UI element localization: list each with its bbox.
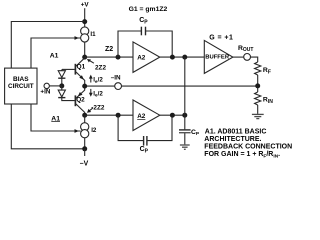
wire Z2 node to A2 input — [85, 56, 133, 58]
wire BIAS to I1 control — [31, 36, 81, 68]
node -V junction — [82, 146, 87, 151]
svg-text:+V: +V — [81, 2, 90, 9]
resistor RIN — [255, 92, 274, 105]
wire Q2 collector to lower A2 — [85, 114, 133, 116]
node +IN junction — [59, 83, 64, 88]
svg-text:I2: I2 — [91, 127, 97, 134]
node +V — [81, 2, 90, 27]
svg-text:Q2: Q2 — [76, 96, 85, 103]
wire A2 top output — [160, 56, 205, 58]
resistor RF — [255, 62, 271, 76]
svg-text:A2: A2 — [137, 54, 146, 61]
svg-text:Ie/2: Ie/2 — [93, 77, 103, 84]
ground below CP — [180, 145, 190, 149]
wire I2 to -V rail — [84, 138, 86, 149]
svg-text:2Z2: 2Z2 — [95, 64, 106, 71]
node cross junction bottom — [182, 113, 187, 118]
current Ie/2 down — [89, 89, 103, 98]
current Ie/2 up — [89, 75, 103, 84]
svg-text:A1. AD8011 BASIC: A1. AD8011 BASIC — [205, 129, 267, 136]
wire buffer output — [233, 56, 244, 58]
transistor Q2 — [75, 86, 85, 115]
wire +IN terminal — [50, 85, 62, 87]
wire RIN to ground — [257, 105, 259, 114]
node Z2 junction — [82, 55, 87, 60]
capacitor CP top feedback — [118, 17, 172, 57]
svg-text:Z2: Z2 — [105, 46, 113, 53]
svg-text:A2: A2 — [137, 113, 146, 120]
svg-text:I1: I1 — [90, 31, 96, 38]
diode D1 — [58, 69, 65, 84]
svg-text:-2Z2: -2Z2 — [91, 104, 105, 111]
op-amp A2 bottom — [133, 100, 160, 131]
wire node to I2 — [84, 115, 86, 123]
wire BIAS to -V rail — [11, 104, 84, 149]
svg-text:ARCHITECTURE.: ARCHITECTURE. — [204, 136, 261, 143]
wire BIAS to I2 control — [31, 104, 81, 133]
node A2 bottom output junction — [170, 113, 175, 118]
caption text — [204, 129, 292, 160]
terminal ROUT — [238, 45, 253, 61]
node -2Z2 annotation — [87, 104, 105, 112]
wire cross connect — [184, 57, 186, 129]
node cross junction top — [182, 55, 187, 60]
node 2Z2 annotation — [87, 59, 107, 71]
ground below RIN — [252, 114, 264, 118]
node -V — [80, 149, 89, 168]
svg-text:G1 = gm1Z2: G1 = gm1Z2 — [129, 6, 168, 13]
node A2 top output junction — [170, 55, 175, 60]
svg-text:CIRCUIT: CIRCUIT — [8, 83, 34, 90]
bias circuit U1 — [5, 68, 37, 104]
node A2 bottom input junction — [116, 113, 121, 118]
capacitor CP load — [179, 129, 200, 145]
current source I2 — [81, 123, 97, 138]
svg-text:A1: A1 — [51, 115, 60, 122]
wire I1 to node Z2 — [84, 42, 86, 57]
capacitor CP bottom feedback — [118, 115, 172, 154]
op-amp A2 top — [133, 42, 160, 73]
wire A2 bottom output — [160, 114, 185, 116]
node A2 top input junction — [116, 55, 121, 60]
svg-text:Q1: Q1 — [77, 63, 86, 70]
svg-text:–V: –V — [80, 161, 89, 168]
buffer U2 — [204, 34, 233, 73]
svg-text:FEEDBACK CONNECTION: FEEDBACK CONNECTION — [204, 144, 292, 151]
svg-text:+IN: +IN — [40, 88, 50, 95]
current source I1 — [81, 27, 97, 42]
svg-text:G = +1: G = +1 — [209, 34, 233, 41]
wire -IN to feedback junction — [122, 85, 258, 87]
wire BIAS to +V rail — [11, 22, 84, 69]
svg-text:BUFFER: BUFFER — [205, 54, 230, 60]
terminal +IN — [40, 83, 50, 95]
transistor Q1 — [62, 58, 86, 86]
wire to RF — [251, 57, 258, 62]
node emitter junction — [82, 84, 87, 89]
node Q2 collector junction — [82, 113, 87, 118]
diode D2 — [58, 86, 74, 101]
terminal -IN — [111, 74, 122, 89]
svg-text:A1: A1 — [50, 52, 59, 59]
svg-text:–IN: –IN — [111, 74, 121, 81]
node feedback junction — [255, 83, 260, 88]
wire -IN rail — [85, 85, 115, 87]
wire RF to junction — [257, 75, 259, 92]
svg-text:Ie/2: Ie/2 — [93, 90, 103, 97]
